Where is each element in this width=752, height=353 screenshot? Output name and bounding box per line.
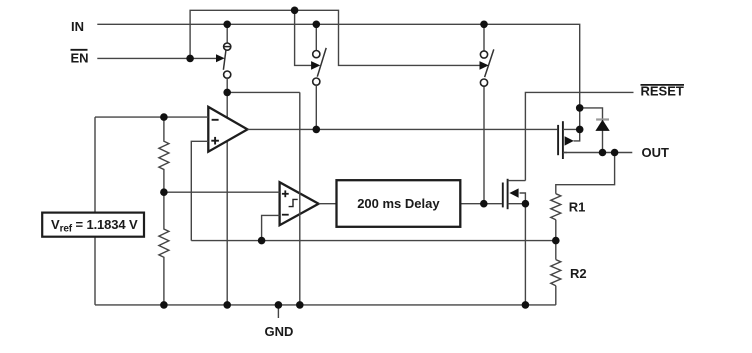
label EN with overbar <box>71 50 89 66</box>
node divider GND <box>160 301 168 309</box>
svg-text:OUT: OUT <box>642 145 670 160</box>
wire switch S3 to gate node <box>483 86 485 204</box>
wire EN top rail <box>190 10 480 65</box>
resistor divider lower (Vref chain) <box>159 192 169 305</box>
switch S3 (EN to delay gate node) <box>480 24 494 86</box>
wire comp1 minus input from Vref <box>95 116 208 118</box>
wire GND pin stub <box>277 305 279 318</box>
wire R2 bottom to GND <box>555 286 557 305</box>
node R1 R2 junction <box>552 237 560 245</box>
node IN-S2 <box>313 21 321 29</box>
svg-text:EN: EN <box>71 51 89 66</box>
wire EN branch to switch S2 <box>295 10 312 65</box>
wire EN input <box>97 57 216 59</box>
node feedback comp2 <box>258 237 266 245</box>
wire comp2 output to delay block <box>319 203 337 205</box>
diode D1 body diode <box>596 120 609 131</box>
wire comp2 supply vertical (crosses over U2) <box>299 92 301 305</box>
node GND pin <box>275 301 283 309</box>
node EN junction <box>186 55 194 63</box>
node S1 output <box>223 89 231 97</box>
delay block 200 ms <box>337 180 461 227</box>
node IN-S1 <box>223 21 231 29</box>
svg-text:RESET: RESET <box>641 84 684 99</box>
wire Q2 source to GND <box>524 204 526 305</box>
wire divider mid to comp2 plus <box>164 191 280 193</box>
svg-text:R1: R1 <box>569 200 586 215</box>
wire IN to diode branch <box>580 108 603 153</box>
node S2-gate line <box>313 126 321 134</box>
node IN diode branch <box>576 104 584 112</box>
node delay gate <box>480 200 488 208</box>
node diode OUT <box>599 149 607 157</box>
svg-text:R2: R2 <box>570 266 587 281</box>
wire comp2 minus input <box>262 215 280 240</box>
resistor divider upper (Vref chain) <box>159 117 169 192</box>
op-amp U1 error comparator <box>208 107 247 152</box>
wire GND rail <box>95 304 556 306</box>
switch S1 (EN, normally closed) <box>216 24 231 92</box>
wire Q1 source bulk tie <box>574 129 580 141</box>
node EN rail junction <box>291 7 299 15</box>
node comp1 supply GND <box>223 301 231 309</box>
wire R2 top lead <box>555 241 557 260</box>
wire Vref branch vertical (behind Vref box) <box>94 117 96 305</box>
node Q1 source <box>576 126 584 134</box>
Vref block <box>42 213 144 237</box>
node IN-S3 <box>480 21 488 29</box>
transistor Q1 PMOS pass FET <box>558 121 580 159</box>
resistor R2 <box>551 260 561 286</box>
node divider top <box>160 113 168 121</box>
node OUT R1 <box>611 149 619 157</box>
node Q2 source <box>522 200 530 208</box>
comparator U2 with hysteresis <box>280 182 319 225</box>
label RESET with overbar <box>641 84 685 99</box>
wire Q2 drain to RESET <box>525 92 633 180</box>
wire OUT line <box>564 152 633 154</box>
svg-text:IN: IN <box>71 19 84 34</box>
svg-text:GND: GND <box>265 324 294 339</box>
resistor R1 <box>551 194 561 220</box>
wire comp1 supply vertical (hidden behind U1) <box>226 92 228 305</box>
svg-text:200 ms Delay: 200 ms Delay <box>357 196 440 211</box>
wire IN rail <box>97 24 579 129</box>
node Q2 source GND <box>522 301 530 309</box>
transistor Q2 NMOS open-drain <box>503 179 526 209</box>
wire OUT to R1 top <box>556 153 615 194</box>
wire feedback line R1/R2 tap <box>191 240 556 242</box>
node divider mid <box>160 188 168 196</box>
switch S2 (EN to gate pull-up) <box>311 24 326 129</box>
wire comp1 output to Q1 gate <box>248 128 558 130</box>
wire switch S1 output to node <box>227 91 300 93</box>
wire comp1 plus input feedback <box>191 141 208 240</box>
wire delay output to Q2 gate <box>460 203 502 205</box>
wire R1 bottom to feedback node <box>555 220 557 241</box>
node comp2 supply GND <box>296 301 304 309</box>
